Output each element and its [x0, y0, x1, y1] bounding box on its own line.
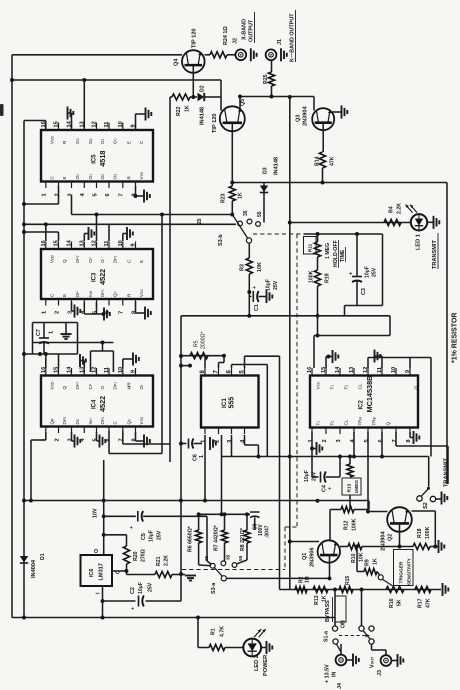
- switch S3-b: [232, 215, 248, 239]
- svg-text:9: 9: [405, 370, 411, 373]
- svg-text:25V: 25V: [312, 471, 318, 481]
- svg-text:*1% RESISTOR: *1% RESISTOR: [452, 313, 459, 363]
- wire Q3 emitter to ground: [330, 111, 341, 113]
- connector J2: [235, 49, 246, 60]
- ground right end of y589 line: [442, 583, 444, 596]
- svg-text:R1: R1: [211, 628, 217, 635]
- svg-text:13: 13: [79, 240, 85, 246]
- svg-text:2N3904: 2N3904: [303, 106, 309, 126]
- wire y456 corner to S2: [428, 457, 430, 487]
- ground IC4 pin5: [96, 432, 98, 441]
- wire V5 x181: [180, 316, 182, 601]
- svg-text:OI: OI: [139, 385, 144, 390]
- connector J3: [381, 655, 392, 666]
- wiper arrow R16: [383, 580, 394, 587]
- ground IC4 pin3: [71, 432, 73, 441]
- svg-text:13: 13: [79, 121, 85, 127]
- svg-text:O1: O1: [88, 174, 93, 180]
- svg-text:9: 9: [131, 370, 137, 373]
- svg-text:D3: D3: [263, 167, 269, 174]
- ground R18: [438, 540, 440, 553]
- wire rail y342 split to IC4 pins: [33, 342, 114, 344]
- box bypass: [335, 596, 346, 622]
- svg-text:VSS: VSS: [139, 171, 144, 179]
- svg-text:12: 12: [92, 367, 98, 373]
- resistor R22 1K: [172, 94, 190, 100]
- svg-text:12: 12: [92, 121, 98, 127]
- svg-text:POWER: POWER: [263, 655, 269, 676]
- svg-text:IC1: IC1: [221, 398, 228, 408]
- resistor R6 6650ohm: [198, 514, 200, 530]
- svg-text:47K: 47K: [426, 598, 432, 608]
- svg-text:Q0: Q0: [113, 291, 118, 297]
- LED LED1: [411, 214, 427, 230]
- svg-text:C6: C6: [193, 454, 199, 461]
- svg-text:R5: R5: [194, 340, 200, 347]
- svg-text:R24 1Ω: R24 1Ω: [223, 26, 229, 45]
- transistor Q1 2N3906: [318, 540, 340, 562]
- wire 555 pin4 loop: [244, 435, 246, 445]
- switch S1-b: [359, 626, 364, 631]
- svg-text:R19: R19: [325, 273, 331, 283]
- svg-text:1: 1: [199, 455, 205, 458]
- wire IC6 input drop: [102, 586, 104, 618]
- svg-text:T2: T2: [344, 385, 349, 390]
- svg-text:R14: R14: [315, 156, 321, 166]
- svg-text:R17: R17: [418, 598, 424, 608]
- svg-text:10: 10: [391, 367, 397, 373]
- svg-text:O2: O2: [88, 138, 93, 144]
- svg-text:E: E: [126, 141, 131, 144]
- svg-text:7: 7: [119, 438, 125, 441]
- svg-text:DP0: DP0: [100, 417, 105, 425]
- wire bottom rail y617: [12, 617, 335, 619]
- svg-text:S3-b: S3-b: [218, 234, 224, 246]
- resistor R4 2.2K: [384, 219, 401, 225]
- wire IC5 pin16 elbow: [45, 121, 47, 132]
- capacitor C6: [181, 443, 187, 445]
- capacitor C7: [43, 323, 45, 339]
- svg-text:Q0: Q0: [126, 419, 131, 425]
- capacitor C4 10uF 25V: [312, 476, 319, 478]
- capacitor C5 10uF 25V: [104, 515, 136, 517]
- svg-text:LM317: LM317: [99, 563, 105, 580]
- svg-text:5: 5: [364, 439, 370, 442]
- wire rail y500: [24, 500, 369, 502]
- svg-text:IN4148: IN4148: [274, 157, 280, 175]
- svg-text:R3: R3: [240, 264, 246, 271]
- wire 555 pin6 loop: [231, 365, 233, 369]
- ground IC4 pin10: [122, 359, 124, 368]
- svg-text:2.2K: 2.2K: [164, 555, 170, 566]
- svg-text:DP1: DP1: [113, 255, 118, 263]
- wire 555 pin7 elbow: [218, 363, 220, 369]
- ground J4: [346, 659, 352, 661]
- svg-text:O0: O0: [113, 138, 118, 144]
- svg-text:100K: 100K: [309, 270, 315, 283]
- svg-text:O3: O3: [75, 138, 80, 144]
- wire IC4 pin1 elbow to rail: [45, 432, 47, 440]
- svg-text:TIP 120: TIP 120: [212, 114, 218, 134]
- svg-text:INH: INH: [88, 290, 93, 297]
- svg-text:LED 2: LED 2: [254, 655, 260, 671]
- svg-text:4518: 4518: [98, 151, 107, 167]
- wire IC2 pin7 route: [395, 432, 397, 446]
- LED LED2 power: [243, 639, 261, 657]
- svg-text:R22: R22: [176, 106, 182, 116]
- resistor R1 4.7K: [197, 618, 199, 648]
- svg-text:270Ω: 270Ω: [141, 549, 147, 562]
- resistor R7 4420ohm: [224, 514, 226, 530]
- svg-text:10K: 10K: [257, 262, 263, 272]
- transistor Q3 2N3904: [312, 108, 334, 130]
- resistor R9 1K: [356, 547, 358, 572]
- ground IC2 pin1: [311, 432, 313, 477]
- svg-text:IC5: IC5: [92, 154, 98, 164]
- wire rail y80 to D2/Q5: [12, 79, 221, 81]
- resistor R18 100K: [413, 543, 430, 549]
- svg-text:1K: 1K: [238, 192, 244, 199]
- svg-text:IN: IN: [332, 672, 338, 677]
- ground IC2 pin8: [409, 432, 411, 438]
- ground J1: [280, 48, 282, 61]
- svg-text:15: 15: [54, 367, 60, 373]
- diode D2 IN4148: [190, 96, 197, 98]
- svg-text:3: 3: [67, 193, 73, 196]
- svg-text:25V: 25V: [372, 267, 378, 277]
- svg-text:CP: CP: [88, 257, 93, 263]
- resistor R15: [339, 586, 353, 592]
- svg-text:+: +: [252, 286, 258, 289]
- resistor R13b 1K: [313, 586, 328, 592]
- svg-text:25V: 25V: [148, 582, 154, 592]
- svg-text:E: E: [62, 294, 67, 297]
- svg-text:Q5: Q5: [240, 99, 246, 106]
- dashed linkage S1: [339, 635, 366, 637]
- svg-text:TRA: TRA: [358, 416, 363, 425]
- wire IC6 out vertical: [103, 460, 105, 555]
- scan artifact left edge: [0, 104, 4, 116]
- resistor R24 1ohm: [205, 54, 210, 56]
- resistor R25: [271, 60, 273, 72]
- svg-text:S3-a: S3-a: [211, 582, 217, 594]
- svg-text:TRB: TRB: [372, 416, 377, 425]
- svg-text:T1: T1: [316, 421, 321, 426]
- svg-text:25V: 25V: [273, 280, 279, 290]
- svg-text:14: 14: [335, 366, 341, 373]
- transistor Q4 TIP120: [182, 50, 205, 73]
- svg-text:8: 8: [406, 439, 412, 442]
- svg-text:10µF: 10µF: [365, 266, 371, 278]
- svg-text:6: 6: [105, 193, 111, 196]
- svg-text:10: 10: [118, 121, 124, 127]
- wire IC6 output line y601 with C2: [103, 600, 136, 602]
- wire bus x162 to IC4 pin6: [161, 215, 163, 454]
- wire IC4 pin16 stub: [45, 354, 47, 368]
- svg-text:R20: R20: [133, 551, 139, 561]
- svg-text:2: 2: [54, 193, 60, 196]
- svg-text:DP3: DP3: [62, 417, 67, 425]
- svg-text:O1: O1: [100, 138, 105, 144]
- svg-text:100K: 100K: [425, 526, 431, 539]
- IC IC1 555: [201, 376, 259, 428]
- svg-text:S2: S2: [423, 502, 429, 509]
- svg-text:R7 4420Ω*: R7 4420Ω*: [214, 524, 220, 551]
- svg-text:35: 35: [226, 554, 232, 560]
- wire S1-b drop: [361, 590, 363, 626]
- svg-text:Q4: Q4: [174, 59, 180, 66]
- ground R21: [181, 574, 185, 576]
- svg-text:25: 25: [197, 218, 203, 224]
- wire y182 Q5 emitter line: [232, 182, 447, 184]
- svg-text:2: 2: [54, 438, 60, 441]
- ground IC2 pin11: [381, 356, 383, 368]
- svg-text:O: O: [100, 386, 105, 390]
- svg-text:7: 7: [392, 439, 398, 442]
- resistor R20 270ohm: [123, 546, 129, 564]
- IC IC6 LM317: [81, 555, 113, 586]
- wire VDD vertical x24: [23, 121, 25, 618]
- wire 555 pin3 drop: [231, 435, 233, 457]
- wire IC2 pin4 drop: [353, 432, 355, 457]
- wire H_A y315.8: [181, 315, 390, 317]
- wire S3-a wiper to Q1 base: [226, 577, 329, 579]
- ground IC4 pin8: [135, 432, 137, 441]
- svg-text:15: 15: [54, 121, 60, 127]
- svg-text:+: +: [131, 607, 137, 610]
- wire IC4 pin15 stub: [58, 354, 60, 368]
- svg-text:D2: D2: [200, 85, 206, 92]
- svg-text:MC14538B: MC14538B: [365, 376, 374, 413]
- svg-text:R13: R13: [347, 483, 353, 492]
- wire LED1 box right edge x447: [446, 183, 448, 485]
- svg-text:+: +: [129, 526, 135, 529]
- svg-text:15: 15: [54, 240, 60, 246]
- wire long bus x290: [289, 97, 291, 590]
- resistor R12 100K: [368, 501, 370, 510]
- svg-text:R15: R15: [345, 576, 351, 585]
- svg-text:J3: J3: [377, 670, 383, 676]
- wire node line y456: [222, 456, 429, 458]
- svg-text:10µF: 10µF: [304, 470, 310, 482]
- svg-text:14: 14: [67, 366, 73, 373]
- svg-text:C7: C7: [36, 329, 42, 336]
- svg-text:C5: C5: [141, 533, 147, 540]
- svg-text:2N3904: 2N3904: [381, 531, 387, 551]
- potentiometer R16 5K: [386, 586, 404, 592]
- svg-text:6: 6: [378, 439, 384, 442]
- wire +V top rail to Q4: [12, 54, 182, 56]
- ground LED2: [261, 647, 266, 649]
- switch S1-a: [332, 626, 337, 631]
- wire S1-a drop: [334, 590, 336, 626]
- svg-text:R4: R4: [389, 206, 395, 213]
- resistor R11 boxed: [304, 237, 317, 255]
- svg-text:+ 13.5V: + 13.5V: [325, 664, 331, 683]
- svg-text:2000Ω*: 2000Ω*: [201, 332, 207, 349]
- IC IC2 MC14538B: [310, 376, 418, 428]
- wire R20 top elbow: [104, 534, 127, 536]
- svg-text:16: 16: [41, 240, 47, 246]
- wire x221 to Q5: [220, 80, 222, 111]
- svg-text:VSS: VSS: [139, 289, 144, 297]
- svg-text:DP0: DP0: [100, 289, 105, 297]
- svg-text:16: 16: [307, 367, 313, 373]
- svg-text:1MEG: 1MEG: [354, 480, 360, 494]
- resistor R21 2.2K: [155, 571, 172, 577]
- IC IC4 4522: [41, 376, 153, 427]
- svg-text:12: 12: [92, 240, 98, 246]
- switch S3-a: [210, 563, 215, 568]
- svg-text:VDD: VDD: [49, 381, 54, 390]
- wire rail y354: [24, 353, 78, 355]
- ground IC5 pin14: [71, 113, 73, 130]
- wire y96 R25 node to Q3: [240, 96, 314, 98]
- svg-text:Q1: Q1: [302, 553, 308, 560]
- resistor R23 1K: [229, 186, 235, 201]
- svg-text:IC4: IC4: [92, 399, 98, 409]
- svg-text:55: 55: [257, 211, 263, 217]
- svg-text:D1: D1: [40, 553, 46, 560]
- svg-text:O3: O3: [113, 174, 118, 180]
- wire IC5 pin2 elbow: [58, 186, 60, 204]
- capacitor C1 10uF 25V: [249, 296, 251, 298]
- svg-text:1K: 1K: [185, 105, 191, 112]
- diode D1 IN4004: [20, 556, 28, 563]
- wire select top line y514: [199, 513, 250, 515]
- svg-text:Q3: Q3: [296, 115, 302, 122]
- ground IC2 pin15: [325, 357, 327, 369]
- svg-text:E: E: [139, 260, 144, 263]
- svg-text:25V: 25V: [157, 530, 163, 540]
- ground IC5 pin8: [135, 186, 137, 196]
- svg-text:R8 221Ω*: R8 221Ω*: [240, 527, 246, 551]
- ground IC3 pin13: [83, 234, 85, 242]
- box hold-off network: [304, 233, 383, 235]
- svg-text:11: 11: [104, 241, 110, 247]
- svg-text:1 MEG: 1 MEG: [325, 243, 331, 259]
- resistor R5 2000ohm: [190, 353, 208, 359]
- svg-text:C4: C4: [322, 485, 328, 492]
- diode D3 IN4148: [263, 183, 265, 223]
- wire IC3 pin15 elbow: [24, 231, 59, 233]
- resistor R2 1ohm: [295, 586, 307, 592]
- trimmer junction circle: [378, 575, 383, 580]
- svg-text:SENSITIVITY: SENSITIVITY: [407, 558, 412, 585]
- wire IC4 pin7 elbow: [122, 431, 124, 444]
- connector J4: [340, 644, 342, 655]
- svg-text:Q: Q: [62, 259, 67, 263]
- wire IC3 pin11 stub: [108, 224, 110, 241]
- wire bus line2 y224.3: [24, 223, 236, 225]
- svg-text:J4: J4: [337, 683, 343, 689]
- svg-text:R6 6650Ω*: R6 6650Ω*: [188, 525, 194, 552]
- wire bus line1 y214.5: [72, 214, 233, 216]
- svg-text:R21: R21: [156, 556, 162, 566]
- svg-text:E: E: [62, 176, 67, 179]
- svg-text:10: 10: [118, 240, 124, 246]
- wire R10 line y546: [340, 546, 348, 548]
- svg-text:11: 11: [104, 367, 110, 373]
- svg-text:Q2: Q2: [388, 534, 394, 541]
- IC IC5 4518: [41, 130, 153, 182]
- resistor R13 1MEG boxed: [349, 457, 351, 465]
- svg-text:Q: Q: [386, 422, 391, 426]
- resistor R19 100K: [314, 270, 320, 286]
- svg-text:VSS: VSS: [139, 416, 144, 424]
- wire IC3 pin16 stub: [45, 224, 47, 241]
- svg-text:+: +: [349, 272, 355, 275]
- wire 555 pin1 drop to rail: [204, 435, 206, 501]
- svg-text:DP: DP: [75, 291, 80, 297]
- svg-text:1: 1: [49, 331, 55, 334]
- svg-text:1Ω: 1Ω: [305, 576, 311, 583]
- svg-text:1: 1: [308, 439, 314, 442]
- capacitor C3 10uF 25V: [356, 234, 358, 277]
- svg-text:K—BAND OUTPUT: K—BAND OUTPUT: [290, 13, 296, 62]
- svg-text:INH: INH: [88, 418, 93, 425]
- svg-text:ON: ON: [341, 620, 347, 628]
- svg-text:3: 3: [336, 439, 342, 442]
- wire ADJ line: [112, 570, 127, 572]
- svg-text:C2: C2: [130, 587, 136, 594]
- svg-text:1: 1: [42, 311, 48, 314]
- wire IC2 pin12/9 route: [367, 358, 369, 369]
- svg-text:5: 5: [92, 193, 98, 196]
- svg-text:R12: R12: [344, 520, 350, 530]
- svg-text:R13: R13: [314, 595, 320, 605]
- svg-text:.0047: .0047: [265, 525, 271, 538]
- svg-text:16: 16: [41, 367, 47, 373]
- svg-text:CL: CL: [344, 419, 349, 425]
- wire y222 LED1 feed: [290, 222, 411, 224]
- resistor chain R11 zigzag: [317, 234, 319, 242]
- svg-text:VDD: VDD: [49, 135, 54, 144]
- resistor R14 47K: [319, 152, 325, 168]
- wire C5 to switch: [206, 516, 208, 561]
- svg-text:9: 9: [131, 243, 137, 246]
- svg-text:LED 1: LED 1: [416, 234, 422, 250]
- svg-text:+: +: [328, 487, 334, 490]
- svg-text:T1: T1: [330, 385, 335, 390]
- svg-text:13: 13: [349, 367, 355, 373]
- wire 555 pin8 stub: [204, 356, 206, 368]
- wire H_B y335: [314, 335, 390, 337]
- wire Q2 collector loop: [368, 511, 388, 513]
- svg-text:J1: J1: [277, 39, 283, 45]
- svg-text:4522: 4522: [98, 269, 107, 285]
- svg-text:25: 25: [204, 555, 210, 561]
- svg-text:O: O: [94, 549, 100, 553]
- svg-text:CL: CL: [358, 383, 363, 389]
- wire bus x279 from 555 pin5: [279, 356, 281, 589]
- svg-text:11: 11: [104, 122, 110, 128]
- svg-text:7: 7: [119, 193, 125, 196]
- transistor Q2 2N3904: [387, 507, 412, 532]
- svg-text:2: 2: [322, 439, 328, 442]
- resistor R17 47K: [415, 586, 431, 592]
- wire Q1 upper-left to bus: [290, 541, 319, 543]
- svg-text:TIP 120: TIP 120: [192, 29, 198, 49]
- wire left border vertical: [11, 55, 13, 618]
- svg-text:T2: T2: [330, 421, 335, 426]
- svg-text:DP7: DP7: [75, 255, 80, 263]
- ground IC3 pin8: [135, 302, 137, 313]
- svg-text:2.2K: 2.2K: [397, 203, 403, 214]
- ground LED1: [427, 221, 433, 223]
- svg-text:R16: R16: [389, 598, 395, 608]
- svg-text:14: 14: [67, 239, 73, 246]
